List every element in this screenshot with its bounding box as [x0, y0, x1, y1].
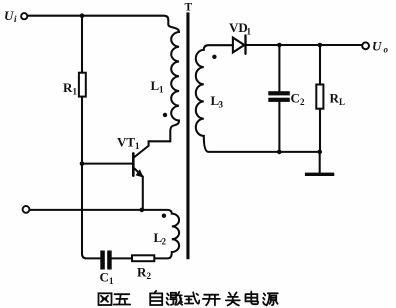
svg-text:T: T [185, 2, 193, 14]
svg-text:U: U [4, 8, 14, 23]
svg-text:R: R [330, 91, 340, 106]
svg-text:1: 1 [247, 27, 252, 37]
svg-text:1: 1 [73, 87, 78, 97]
svg-text:3: 3 [219, 100, 224, 110]
svg-text:L: L [339, 97, 345, 107]
svg-text:VD: VD [229, 20, 248, 35]
svg-text:R: R [137, 265, 147, 280]
svg-text:VT: VT [117, 135, 135, 150]
svg-text:C: C [291, 91, 300, 106]
svg-text:U: U [372, 39, 382, 54]
svg-text:1: 1 [135, 141, 140, 151]
svg-text:o: o [384, 45, 389, 55]
svg-text:C: C [100, 270, 109, 285]
svg-text:2: 2 [300, 97, 305, 107]
svg-text:1: 1 [159, 85, 164, 95]
svg-text:R: R [63, 80, 73, 95]
svg-text:1: 1 [109, 276, 114, 286]
svg-text:2: 2 [147, 271, 152, 281]
svg-text:2: 2 [162, 237, 167, 247]
